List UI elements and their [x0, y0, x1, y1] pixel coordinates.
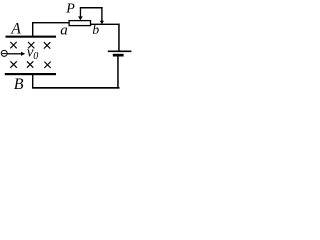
svg-text:b: b [92, 22, 99, 37]
minus sign in particle [2, 53, 7, 55]
field cross row1 c3 [44, 42, 50, 48]
field cross row2 c3 [44, 62, 50, 68]
svg-text:a: a [60, 22, 67, 38]
wire from plate A up [32, 22, 33, 36]
plate A [6, 36, 57, 38]
bottom wire [32, 87, 120, 89]
battery short thick plate [113, 54, 124, 57]
slider arrowhead [78, 16, 83, 20]
plate B [5, 73, 56, 75]
wire below battery [117, 57, 119, 88]
charged particle circle [1, 50, 7, 56]
slider arrow shaft [80, 7, 81, 17]
svg-text:0: 0 [33, 51, 38, 62]
velocity arrowhead [21, 52, 25, 56]
battery long plate [108, 51, 132, 53]
svg-text:A: A [10, 21, 21, 38]
svg-text:B: B [14, 76, 24, 93]
resistor P box [69, 21, 90, 26]
velocity arrow shaft [7, 53, 21, 55]
wire top horizontal to resistor [32, 22, 69, 23]
slider top wire [80, 7, 103, 9]
junction arrowhead at b [100, 21, 104, 25]
field cross row1 c2 [28, 42, 34, 48]
field cross row2 c1 [10, 61, 16, 67]
field cross row1 c1 [10, 42, 16, 48]
field cross row2 c2 [27, 61, 33, 67]
right vertical wire to battery [118, 24, 120, 51]
wire resistor to right corner [91, 24, 120, 25]
svg-text:P: P [65, 2, 75, 17]
slider right vertical wire [101, 7, 102, 21]
wire from plate B down [32, 75, 33, 88]
